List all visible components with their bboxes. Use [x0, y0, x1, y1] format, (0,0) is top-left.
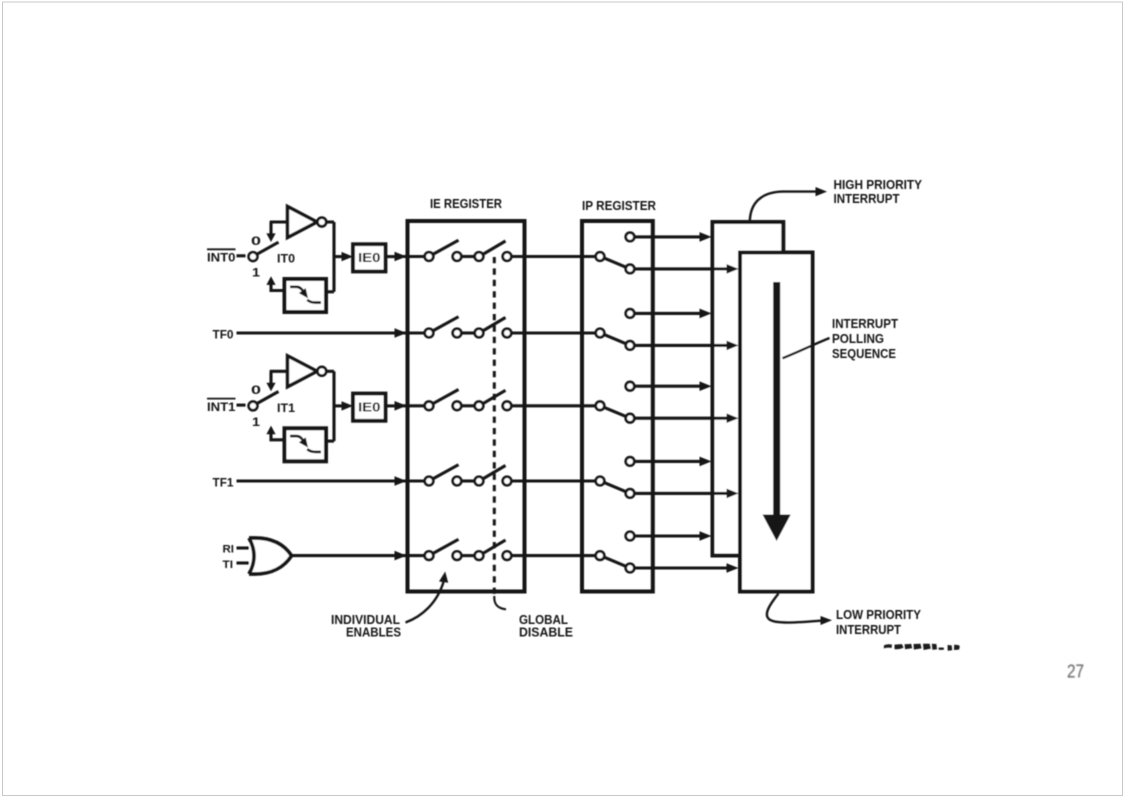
svg-text:INTERRUPT: INTERRUPT: [832, 316, 898, 331]
svg-text:INTERRUPT: INTERRUPT: [836, 622, 901, 637]
svg-text:POLLING: POLLING: [832, 331, 884, 346]
svg-text:INTERRUPT: INTERRUPT: [834, 191, 900, 206]
svg-text:LOW PRIORITY: LOW PRIORITY: [836, 607, 921, 622]
svg-text:INT0: INT0: [207, 251, 236, 265]
svg-text:TF0: TF0: [213, 328, 234, 342]
svg-text:DISABLE: DISABLE: [519, 625, 573, 640]
svg-text:IT1: IT1: [277, 401, 295, 415]
svg-text:TI: TI: [223, 559, 234, 571]
svg-text:INT1: INT1: [207, 400, 236, 414]
svg-text:ENABLES: ENABLES: [346, 625, 401, 640]
svg-text:RI: RI: [223, 544, 235, 556]
svg-text:SEQUENCE: SEQUENCE: [832, 346, 896, 361]
svg-text:27: 27: [1067, 662, 1084, 682]
svg-text:HIGH PRIORITY: HIGH PRIORITY: [834, 177, 923, 192]
svg-text:IE REGISTER: IE REGISTER: [430, 196, 503, 211]
svg-text:IP REGISTER: IP REGISTER: [582, 198, 657, 213]
svg-text:TF1: TF1: [213, 476, 234, 490]
svg-text:IT0: IT0: [277, 252, 295, 266]
